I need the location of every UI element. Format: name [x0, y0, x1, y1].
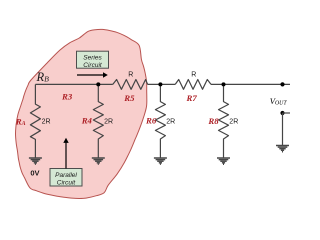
svg-text:2R: 2R	[104, 118, 113, 125]
svg-text:R: R	[191, 71, 196, 78]
svg-text:Parallel: Parallel	[55, 172, 77, 179]
svg-text:R5: R5	[123, 93, 135, 103]
svg-text:R7: R7	[186, 93, 198, 103]
svg-text:R4: R4	[81, 115, 93, 125]
svg-text:2R: 2R	[42, 118, 51, 125]
svg-text:2R: 2R	[166, 118, 175, 125]
svg-text:R6: R6	[145, 115, 157, 125]
svg-text:R: R	[128, 71, 133, 78]
svg-text:2R: 2R	[229, 118, 238, 125]
svg-text:Series: Series	[83, 55, 102, 62]
svg-text:0V: 0V	[30, 168, 39, 177]
svg-text:R8: R8	[207, 116, 219, 126]
svg-text:Circuit: Circuit	[57, 179, 77, 186]
svg-text:Circuit: Circuit	[83, 62, 103, 69]
svg-text:R3: R3	[61, 92, 73, 102]
